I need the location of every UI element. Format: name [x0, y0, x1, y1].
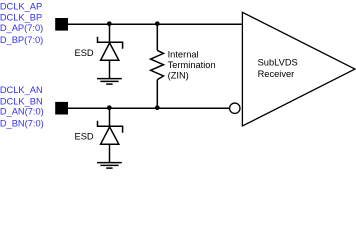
svg-text:ESD: ESD	[75, 132, 94, 142]
svg-text:DCLK_AN: DCLK_AN	[0, 85, 43, 95]
svg-text:D_BN(7:0): D_BN(7:0)	[0, 119, 44, 129]
svg-text:DCLK_BP: DCLK_BP	[0, 13, 42, 23]
svg-text:Termination: Termination	[168, 60, 216, 70]
svg-text:D_AN(7:0): D_AN(7:0)	[0, 107, 44, 117]
svg-text:DCLK_BN: DCLK_BN	[0, 97, 43, 107]
svg-text:ESD: ESD	[75, 48, 94, 58]
svg-text:Internal: Internal	[168, 50, 199, 60]
svg-text:D_BP(7:0): D_BP(7:0)	[0, 35, 43, 45]
svg-text:Receiver: Receiver	[258, 69, 295, 79]
svg-text:DCLK_AP: DCLK_AP	[0, 1, 42, 11]
svg-text:D_AP(7:0): D_AP(7:0)	[0, 23, 43, 33]
svg-text:(ZIN): (ZIN)	[168, 71, 189, 81]
svg-text:SubLVDS: SubLVDS	[258, 57, 298, 67]
